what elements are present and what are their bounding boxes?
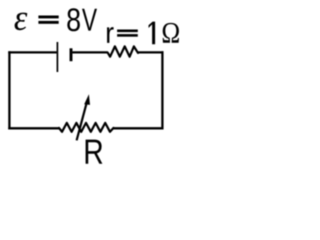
- label 1 of 1 ohm: [149, 22, 156, 45]
- label 8 of 8V: [67, 8, 80, 31]
- wire bottom-left segment: [8, 127, 59, 129]
- battery E long plate (+): [56, 42, 58, 72]
- wire bottom-right segment: [113, 127, 163, 129]
- battery E short plate (-): [70, 48, 73, 61]
- wire right side (vertical): [161, 51, 163, 129]
- resistor r zigzag: [108, 46, 138, 56]
- label epsilon (EMF symbol): [15, 13, 28, 31]
- rheostat R zigzag: [59, 123, 114, 132]
- wire left side (vertical): [8, 51, 10, 129]
- label equals sign of r value: [117, 30, 138, 37]
- label equals sign of EMF value: [38, 16, 58, 24]
- label ohm symbol: [163, 23, 179, 43]
- label r (internal resistance): [107, 27, 114, 43]
- wire top-right segment: [138, 51, 164, 53]
- wire top-middle segment (battery to resistor r): [72, 51, 108, 53]
- rheostat arrow head: [84, 94, 90, 105]
- label R (rheostat): [86, 140, 103, 164]
- label V of 8V: [82, 9, 97, 31]
- wire top-left segment (battery + terminal lead): [8, 51, 56, 53]
- rheostat arrow shaft: [77, 101, 88, 140]
